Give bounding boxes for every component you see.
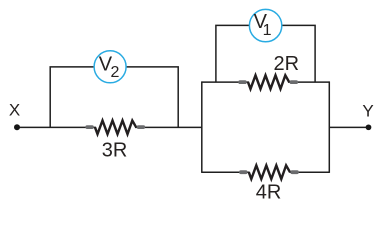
resistor 2R right terminal pad (290, 80, 298, 84)
resistor 2R left terminal pad (238, 80, 246, 84)
resistor 2R zigzag (248, 75, 289, 89)
voltmeter V1 loop wire (up at x=216, across y=25, down at x=315) (216, 25, 315, 82)
svg-text:3R: 3R (102, 140, 128, 162)
wire 3R to parallel block left (main wire, y=127) (135, 126, 202, 128)
resistor 3R zigzag (95, 121, 136, 135)
svg-text:Y: Y (362, 101, 373, 120)
parallel block right vertical wire (x=329) (328, 81, 330, 172)
terminal node Y (dot) (366, 124, 372, 130)
resistor 4R zigzag (249, 165, 290, 179)
resistor 4R left terminal pad (239, 170, 247, 174)
svg-text:2R: 2R (274, 53, 300, 75)
wire 2R branch right (y=82) (288, 81, 329, 83)
svg-text:X: X (9, 100, 20, 119)
svg-text:4R: 4R (256, 182, 282, 204)
wire parallel block to terminal Y (y=127) (329, 126, 368, 128)
resistor 4R right terminal pad (290, 170, 298, 174)
resistor 3R left terminal pad (85, 125, 93, 129)
svg-text:1: 1 (263, 22, 272, 39)
wire X to resistor 3R (main wire left, y=127) (17, 126, 96, 128)
wire 4R branch right (y=172) (290, 171, 330, 173)
parallel block left vertical wire (x=202) (201, 81, 203, 172)
voltmeter V2 body (94, 51, 126, 83)
voltmeter V1 body (249, 9, 281, 41)
resistor 3R right terminal pad (137, 125, 145, 129)
wire 2R branch left (y=82) (202, 81, 249, 83)
svg-text:2: 2 (111, 64, 120, 81)
terminal node X (dot) (14, 124, 20, 130)
wire 4R branch left (y=172) (202, 171, 250, 173)
voltmeter V2 loop wire (up at x=50, across y=67, down at x=178) (50, 67, 178, 128)
